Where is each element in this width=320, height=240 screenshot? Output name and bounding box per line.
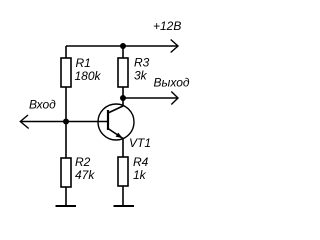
svg-text:47k: 47k [75,168,95,182]
svg-text:R1: R1 [76,56,91,70]
svg-text:+12В: +12В [153,19,181,33]
svg-text:VT1: VT1 [129,136,151,150]
svg-text:R4: R4 [133,155,149,169]
svg-text:R3: R3 [134,56,150,70]
svg-text:1k: 1k [133,168,147,182]
svg-text:180k: 180k [75,69,102,83]
svg-text:Выход: Выход [154,76,190,90]
svg-text:3k: 3k [134,69,148,83]
svg-text:R2: R2 [75,155,91,169]
svg-text:Вход: Вход [29,98,56,112]
